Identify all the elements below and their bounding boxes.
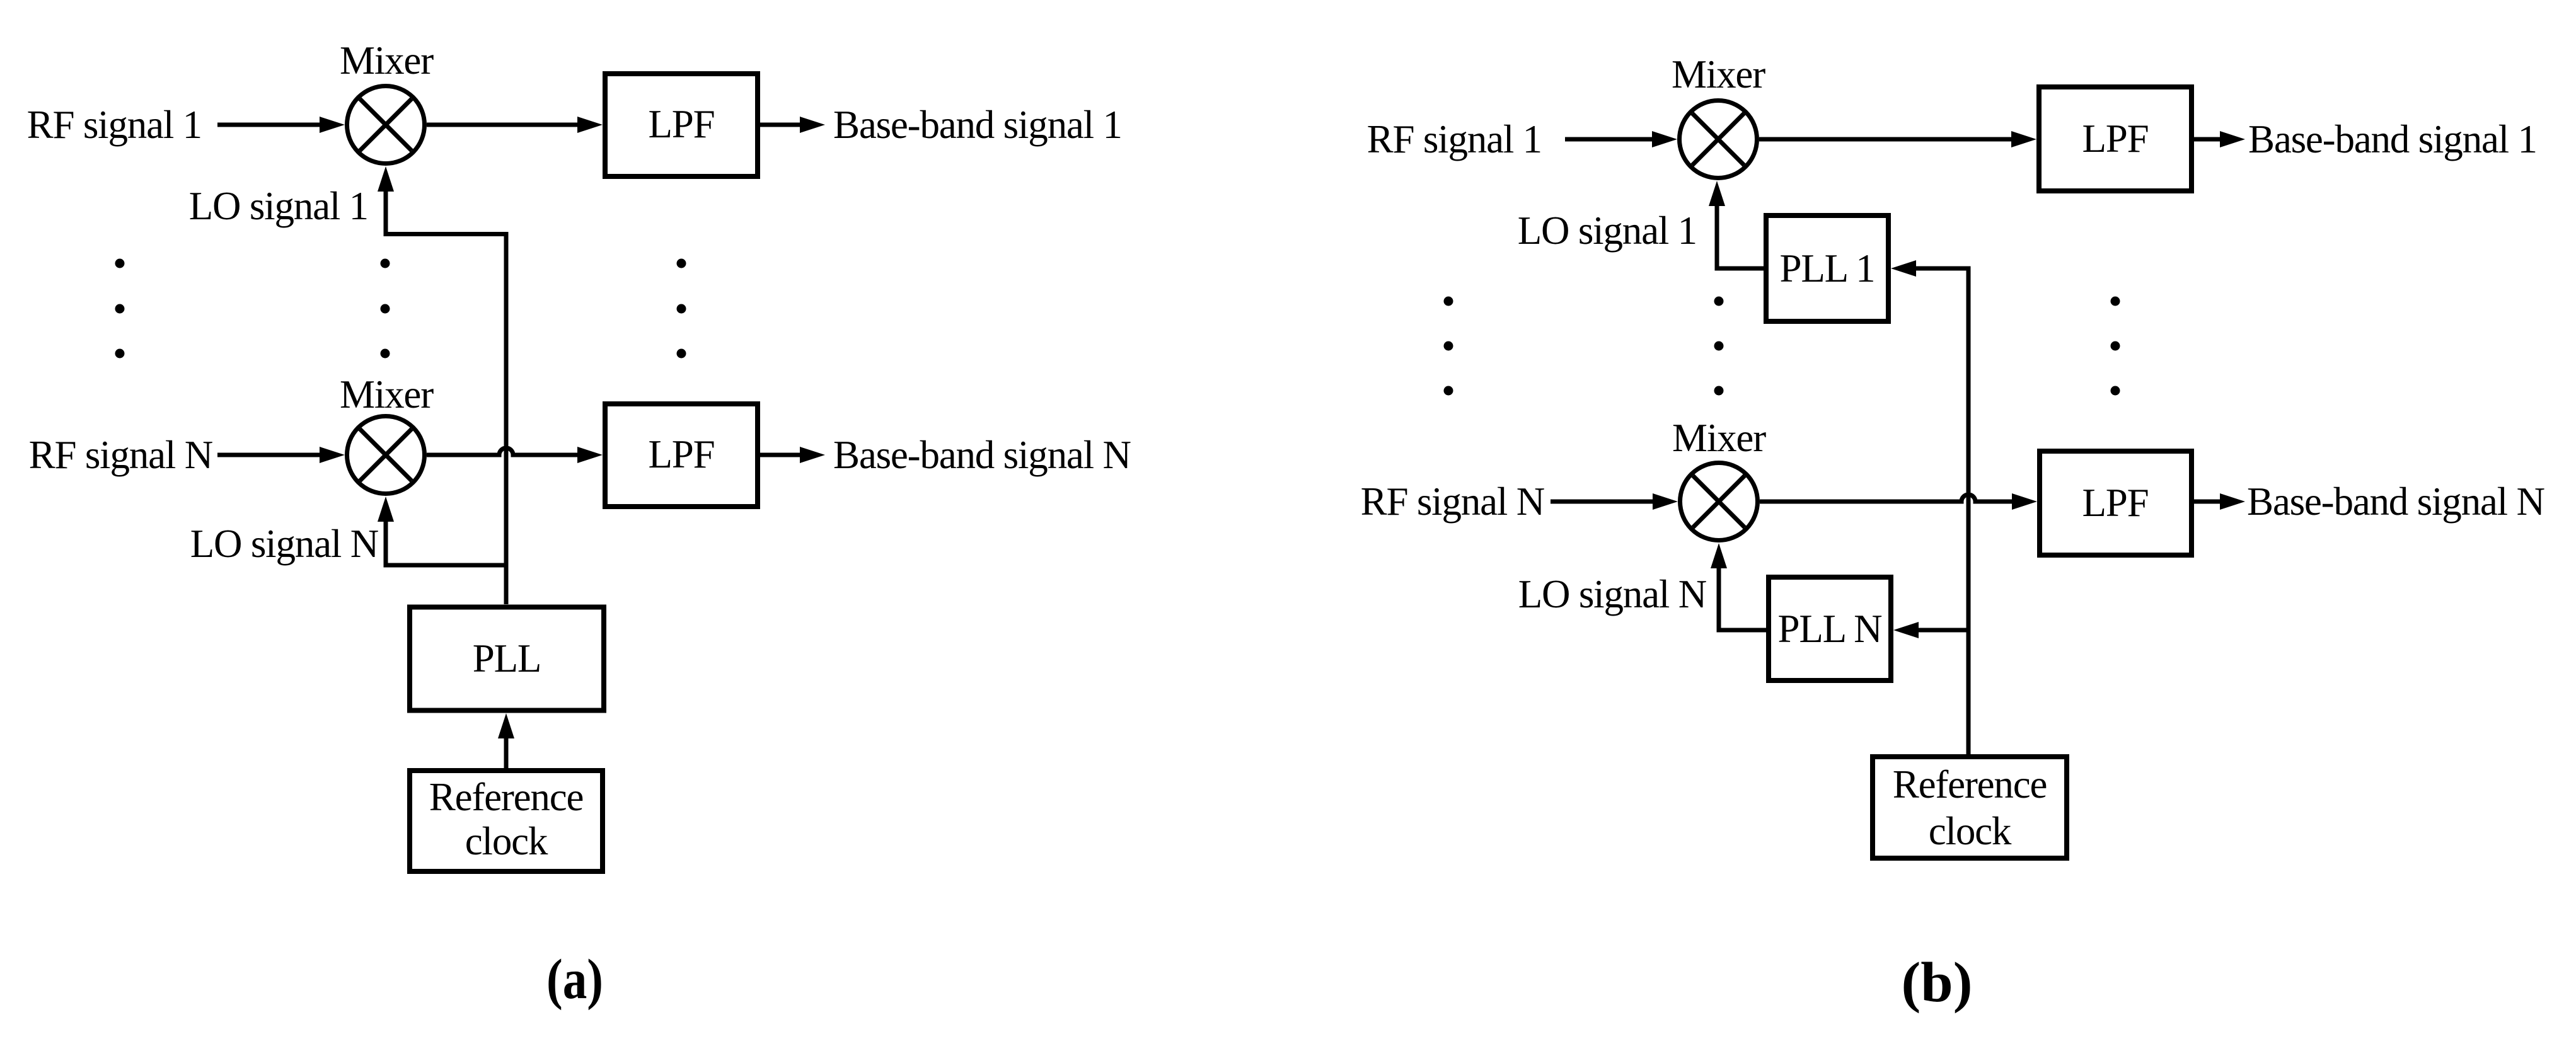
svg-text:Mixer: Mixer [340, 372, 434, 416]
svg-text:Mixer: Mixer [340, 38, 434, 83]
svg-text:LPF: LPF [2082, 481, 2149, 525]
wire mixer1a to LPF1a [427, 123, 578, 127]
mixer UNb [1680, 463, 1758, 541]
svg-text:LPF: LPF [649, 432, 715, 476]
svg-text:(b): (b) [1902, 951, 1973, 1014]
wire reference into PLL 1 and down trunk (b) [1891, 260, 1916, 277]
wire LO signal 1 from PLL 1 into mixer1b [1709, 181, 1725, 206]
wire RF1 to mixer (a) [217, 123, 321, 127]
svg-text:LPF: LPF [2082, 117, 2149, 161]
wire Reference clock to PLL (a) [498, 713, 514, 738]
svg-text:RF signal N: RF signal N [1361, 479, 1545, 524]
wire mixerNb to LPFNb with hop over reference trunk [1760, 495, 2013, 502]
Reference clock U5b box [1873, 757, 2067, 858]
PLL 1 U3b box [1766, 215, 1888, 321]
LPF U2b box [2039, 87, 2192, 191]
svg-text:Base-band signal 1: Base-band signal 1 [833, 103, 1122, 147]
svg-text:LO signal 1: LO signal 1 [189, 184, 368, 228]
svg-text:LO signal 1: LO signal 1 [1518, 209, 1697, 253]
svg-text:(a): (a) [546, 948, 603, 1011]
wire RFN to mixerNa [217, 453, 321, 457]
svg-text:LPF: LPF [649, 102, 715, 146]
svg-text:Mixer: Mixer [1672, 52, 1765, 96]
svg-text:Reference: Reference [429, 775, 584, 819]
ellipsis dots column left (b) [1444, 297, 1453, 396]
wire reference into PLL N (b) [1893, 622, 1919, 638]
wire LO signal 1 into mixer1a and down to PLL (a) [378, 166, 394, 192]
svg-text:RF signal 1: RF signal 1 [1367, 117, 1542, 161]
mixer U1b [1680, 101, 1757, 178]
ellipsis dots column middle (a) [381, 259, 390, 359]
svg-text:Mixer: Mixer [1672, 416, 1766, 460]
PLL U3a box [410, 607, 604, 711]
mixer UNa [347, 416, 425, 494]
ellipsis dots column left (a) [115, 259, 125, 359]
svg-text:PLL N: PLL N [1778, 607, 1883, 651]
wire LPF1a output [760, 123, 800, 127]
svg-text:RF signal N: RF signal N [29, 433, 213, 477]
wire LO signal N into mixerNa from PLL line (a) [378, 497, 394, 522]
wire mixer1b to LPF1b [1759, 137, 2012, 142]
svg-text:LO signal N: LO signal N [1518, 572, 1707, 616]
mixer U1a [347, 86, 425, 164]
ellipsis dots column right (b) [2111, 297, 2120, 396]
wire RF1 to mixer1b [1565, 137, 1653, 142]
LPF U2a box [605, 74, 758, 176]
svg-text:clock: clock [465, 819, 548, 863]
svg-text:Base-band signal N: Base-band signal N [833, 433, 1131, 477]
wire LPFNb output [2192, 500, 2221, 504]
svg-text:PLL 1: PLL 1 [1780, 246, 1875, 290]
wire RFN to mixerNb [1551, 500, 1654, 504]
svg-text:Reference: Reference [1893, 762, 2047, 807]
svg-text:RF signal 1: RF signal 1 [27, 103, 202, 147]
wire LO signal N from PLL N into mixerNb [1711, 543, 1727, 568]
LPF UNb box [2040, 451, 2192, 555]
ellipsis dots column middle (b) [1714, 297, 1724, 396]
svg-text:Base-band signal 1: Base-band signal 1 [2248, 117, 2537, 161]
PLL N U4b box [1769, 577, 1891, 680]
wire LPFNa output [760, 453, 800, 457]
ellipsis dots column right (a) [677, 259, 686, 359]
wire mixerNa to LPFNa with hop over PLL line [427, 448, 578, 455]
svg-text:LO signal N: LO signal N [190, 522, 379, 566]
svg-text:PLL: PLL [473, 636, 541, 680]
LPF UNa box [605, 404, 758, 507]
svg-text:Base-band signal N: Base-band signal N [2247, 479, 2544, 524]
wire LPF1b output [2194, 137, 2221, 142]
Reference clock U4a box [410, 771, 603, 871]
svg-text:clock: clock [1929, 809, 2012, 853]
